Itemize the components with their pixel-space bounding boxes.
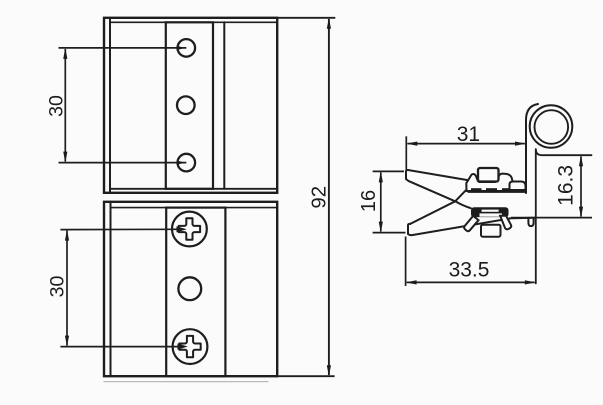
top leaf inner top line xyxy=(110,21,277,23)
dimension 92: dimension line xyxy=(328,19,330,375)
dimension 16: extension lines xyxy=(373,171,406,232)
lower prong top edge xyxy=(410,201,455,224)
top clip dark gaps xyxy=(471,188,509,191)
top leaf vertical line xyxy=(223,22,225,189)
screw S1 xyxy=(172,212,207,247)
ring outer circle xyxy=(530,105,573,148)
dimension 16: dimension line xyxy=(380,173,382,232)
ring inner circle xyxy=(535,110,569,144)
bottom clip cap xyxy=(471,207,509,217)
dimension 30 bottom: extension lines xyxy=(60,229,178,346)
dimension 16.3: arrows xyxy=(579,155,583,217)
screw S2 leader arrow xyxy=(178,344,188,350)
upper prong bottom edge xyxy=(406,179,455,201)
wall left line xyxy=(526,104,538,193)
dimension 16.3: extension line bottom xyxy=(511,156,592,217)
body top surface xyxy=(469,190,526,192)
bottom leaf inner top line xyxy=(111,207,278,209)
claw upper prong xyxy=(406,170,467,180)
dimension 16: arrows xyxy=(379,171,383,232)
bottom leaf inner left line xyxy=(110,202,112,376)
lower prong tip edge xyxy=(408,224,410,234)
svg-text:92: 92 xyxy=(308,186,331,209)
bottom plate rectangle xyxy=(166,208,225,377)
dimension 30 top: arrows xyxy=(63,46,185,165)
svg-text:33.5: 33.5 xyxy=(449,259,490,282)
dimension 33.5: dimension line xyxy=(407,281,535,283)
dimension 16.3: dimension line xyxy=(580,156,582,216)
bottom clip tab xyxy=(481,225,501,237)
bottom clip band2 slit xyxy=(480,213,503,216)
hole H3 xyxy=(178,154,196,172)
lower prong bottom edge xyxy=(408,218,536,235)
dimension 30 bottom: dimension line xyxy=(66,231,68,346)
dimension 31: arrows xyxy=(406,142,526,146)
bottom clip left flange xyxy=(464,216,478,231)
vertex line xyxy=(455,189,467,202)
svg-text:16: 16 xyxy=(358,190,380,212)
dimension 30 top: extension lines xyxy=(59,48,187,163)
bottom leaf outer rectangle xyxy=(104,202,277,376)
top clip finger xyxy=(510,182,526,191)
dimension 92: arrows xyxy=(327,18,331,376)
hole H1 xyxy=(178,39,196,57)
dimension 92: extension lines xyxy=(277,18,335,376)
top leaf outer rectangle xyxy=(104,18,277,193)
top clip crown xyxy=(466,168,525,191)
svg-text:30: 30 xyxy=(46,95,68,117)
top-right surface line (16.3 extension) xyxy=(536,149,592,155)
top leaf inner bottom line xyxy=(110,188,277,190)
top plate rectangle xyxy=(166,22,213,189)
dimension 33.5: extension line left xyxy=(406,237,535,287)
bottom leaf bottom shadow line xyxy=(104,381,268,383)
dimension 30 top: dimension line xyxy=(64,49,66,162)
bottom clip right flange xyxy=(500,216,511,230)
hole H2 xyxy=(177,96,195,114)
screw S1 leader arrow xyxy=(177,226,187,232)
dimension 30 bottom: arrows xyxy=(65,226,188,350)
svg-text:31: 31 xyxy=(457,123,480,146)
dimension 33.5: arrows xyxy=(406,280,536,284)
svg-text:30: 30 xyxy=(47,276,69,298)
vertex to cap lower edge xyxy=(455,201,471,208)
dimension 31: extension line xyxy=(406,136,525,169)
wall right line (33.5 extension) xyxy=(535,150,537,284)
hook xyxy=(528,218,533,226)
top clip tab xyxy=(478,168,499,182)
svg-text:16.3: 16.3 xyxy=(555,165,578,206)
top leaf inner left line xyxy=(109,18,111,193)
screw S2 xyxy=(173,329,208,364)
hole H4 middle xyxy=(178,277,201,300)
dimension 31: dimension line xyxy=(408,143,525,145)
